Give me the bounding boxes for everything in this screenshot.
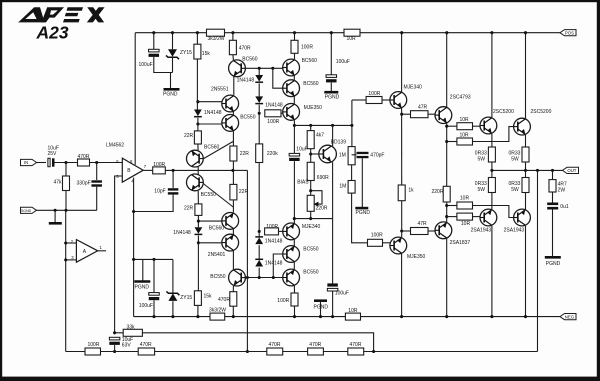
wire bias box bus bbox=[134, 258, 173, 260]
wire 100uF bot to rail bbox=[153, 300, 155, 316]
svg-text:BC560: BC560 bbox=[302, 58, 318, 64]
resistor 47k bbox=[54, 176, 70, 191]
svg-text:BC560: BC560 bbox=[242, 56, 258, 62]
wire 0R33up2 to OUT row bbox=[525, 162, 527, 170]
wire 10Rt2 to far base bbox=[473, 127, 514, 142]
wire 2N5401 down bbox=[232, 251, 234, 270]
svg-text:PGND: PGND bbox=[325, 94, 340, 100]
resistor 0R33 5W up2 bbox=[522, 147, 529, 162]
node input junction bbox=[64, 161, 67, 164]
diode 1N4148 mid-1 bbox=[237, 75, 264, 84]
svg-text:PGND: PGND bbox=[356, 210, 371, 216]
svg-text:BC550: BC550 bbox=[303, 246, 319, 252]
svg-text:2N5401: 2N5401 bbox=[208, 252, 226, 258]
wire BC560ul emitter down bbox=[233, 77, 235, 96]
svg-text:100uF: 100uF bbox=[139, 303, 153, 309]
wire MJE350low emitter bbox=[401, 254, 403, 317]
wire pgnd stem lower-left bbox=[142, 259, 144, 281]
capacitor 10uF bias bbox=[289, 146, 308, 161]
resistor 470R bottom bbox=[218, 292, 237, 307]
resistor 0R33 5W up1 bbox=[488, 147, 495, 162]
wire 1M-1M bbox=[351, 165, 353, 181]
svg-text:LM4562: LM4562 bbox=[106, 142, 124, 148]
wire opamp out bbox=[143, 169, 153, 171]
diode 1N4148 left bbox=[194, 110, 222, 117]
svg-text:100R: 100R bbox=[267, 119, 279, 125]
svg-text:5W: 5W bbox=[478, 156, 486, 162]
wire bias bus bottom bbox=[294, 218, 332, 220]
wire BC560lm to 2N5401 bbox=[232, 229, 234, 234]
svg-text:1N4148: 1N4148 bbox=[237, 78, 255, 84]
wire 10Rb2 to Q base bbox=[473, 216, 481, 218]
node POS rail x=401.7 bbox=[400, 31, 403, 34]
svg-text:330pF: 330pF bbox=[77, 180, 91, 186]
wire opamp pin8 power up bbox=[134, 33, 136, 165]
transistor BC550 right-2 bbox=[283, 246, 300, 263]
wire negative rail mid bbox=[225, 316, 346, 318]
resistor 10R bottom rail bbox=[345, 308, 360, 320]
svg-text:2SC4793: 2SC4793 bbox=[450, 95, 471, 101]
POS connector tag bbox=[560, 30, 576, 36]
wire pgnd lower-mid stem bbox=[320, 302, 322, 317]
resistor 22R upper-left bbox=[184, 131, 201, 144]
diode 1N4148 mid-2 bbox=[255, 96, 283, 108]
wire BD139 emitter down bbox=[332, 162, 334, 283]
svg-text:100R: 100R bbox=[301, 45, 313, 51]
node NEG rail x=332.6 bbox=[331, 315, 334, 318]
svg-text:BC550: BC550 bbox=[201, 192, 217, 198]
node 10R t2 tap bbox=[445, 140, 448, 143]
transistor MJE340 upper driver bbox=[390, 92, 407, 109]
transistor 2SA1943 no2 bbox=[514, 209, 531, 226]
svg-text:BC560: BC560 bbox=[204, 145, 220, 151]
node OUT row 2 bbox=[524, 169, 527, 172]
wire diode to base tap bbox=[197, 118, 199, 124]
zener ZY15 bottom bbox=[166, 291, 192, 301]
wire 2SC4793 emitter column bbox=[446, 123, 448, 222]
svg-text:15k: 15k bbox=[204, 293, 213, 299]
node rt2 branch bbox=[271, 67, 274, 70]
node bias bus right bbox=[350, 124, 353, 127]
wire positive rail right bbox=[360, 32, 560, 34]
svg-text:220R: 220R bbox=[432, 189, 444, 195]
wire 220k down bbox=[258, 163, 260, 237]
svg-text:2SC5200: 2SC5200 bbox=[493, 109, 514, 115]
wire ZY15 bot lead bbox=[172, 259, 174, 292]
resistor 0R33 5W dn2 bbox=[522, 178, 529, 193]
wire base 2N5551 bbox=[198, 101, 222, 103]
wire 470pF left lead bbox=[352, 154, 357, 156]
transistor 2SC4793 bbox=[435, 107, 452, 124]
svg-text:4k7: 4k7 bbox=[316, 133, 324, 139]
svg-text:100uF: 100uF bbox=[139, 62, 153, 68]
capacitor 0u1 zobel bbox=[547, 203, 569, 211]
wire base BC560 lowmid bbox=[198, 220, 221, 222]
wire ZY15 top lead bbox=[172, 33, 174, 50]
node OUT row 1 bbox=[490, 169, 493, 172]
node VAS drive bbox=[231, 169, 234, 172]
diode 1N4148 lowmid-2 bbox=[255, 259, 282, 266]
svg-text:PGND: PGND bbox=[163, 91, 178, 97]
wire 10pF return bbox=[134, 195, 174, 212]
node SGND ground stem bbox=[54, 209, 57, 212]
wire base bus upper bbox=[245, 67, 282, 69]
node POS rail x=172.5 bbox=[171, 31, 174, 34]
svg-text:PGND: PGND bbox=[546, 261, 561, 267]
wire 0u1 to PGND bbox=[552, 210, 554, 257]
wire negative rail right bbox=[361, 316, 561, 318]
wire 100R-coll leads bbox=[294, 33, 296, 41]
wire pin2 stub bbox=[66, 242, 77, 244]
node 100R mid top bbox=[258, 112, 261, 115]
wire Q5200-2 emitter bbox=[525, 135, 527, 147]
resistor 10R out-base t2 bbox=[457, 133, 473, 146]
node diode col top bbox=[258, 67, 261, 70]
resistor 15k bottom bbox=[194, 291, 212, 306]
transistor MJE350 lower driver bbox=[390, 237, 407, 254]
wire 2SC4793 collector bbox=[446, 33, 448, 108]
resistor 220R driver bbox=[432, 186, 451, 202]
node NEG rail x=233.3 bbox=[232, 315, 235, 318]
wire 22R to BC560 lowmid bbox=[232, 200, 234, 212]
svg-text:10R: 10R bbox=[460, 196, 470, 202]
wire OUT row bbox=[492, 169, 563, 171]
wire 33k row bbox=[115, 333, 374, 352]
wire 0R33dn2 leads bbox=[525, 170, 527, 177]
node fb vertical join bbox=[246, 276, 249, 279]
resistor 4R7 2W bbox=[549, 180, 556, 192]
svg-text:1k: 1k bbox=[408, 188, 414, 194]
svg-text:2SC5200: 2SC5200 bbox=[531, 109, 552, 115]
wire fb elbow bbox=[233, 169, 248, 171]
resistor 10R out-base b1 bbox=[457, 196, 473, 210]
resistor 690R bbox=[307, 162, 329, 181]
wire opamp A feed line bbox=[65, 210, 67, 351]
capacitor 330pF bbox=[77, 180, 102, 186]
wire 10Rt1 to Q base bbox=[473, 125, 481, 127]
svg-text:MJE350: MJE350 bbox=[407, 254, 426, 260]
node 10R b1 tap bbox=[445, 204, 448, 207]
svg-text:POS: POS bbox=[565, 30, 574, 35]
resistor 1k bbox=[398, 185, 414, 201]
transistor BC560 lower-left bbox=[187, 150, 204, 167]
wire 47k to SGND row bbox=[65, 191, 67, 211]
svg-text:1N4148: 1N4148 bbox=[265, 239, 283, 245]
svg-text:220R: 220R bbox=[316, 206, 328, 212]
node 47R top tap bbox=[400, 113, 403, 116]
transistor 2SA1943 no1 bbox=[480, 209, 497, 226]
wire BC560ll to BC550ll bbox=[197, 167, 199, 174]
wire 10Rt2 leads bbox=[447, 141, 457, 143]
node NEG rail x=525.5 bbox=[524, 315, 527, 318]
svg-text:33k: 33k bbox=[127, 324, 136, 330]
svg-text:10R: 10R bbox=[461, 221, 471, 227]
svg-text:22R: 22R bbox=[184, 205, 194, 211]
svg-text:NEG: NEG bbox=[565, 314, 575, 319]
wire 2SA1837 emitter bbox=[446, 239, 448, 317]
wire diode1-diode2 bbox=[258, 83, 260, 96]
wire Q1943-2 emitter bbox=[525, 226, 527, 317]
svg-text:3k3/2W: 3k3/2W bbox=[209, 308, 226, 314]
svg-text:A23: A23 bbox=[36, 23, 69, 43]
wire 0R33dn2 to Q1943-2 bbox=[525, 193, 527, 211]
wire rt2-MJE350 bbox=[293, 97, 295, 104]
zener ZY15 top bbox=[166, 49, 192, 59]
diode 1N4148 lower-left bbox=[173, 227, 202, 236]
node 10pF tap bbox=[172, 169, 175, 172]
wire diagonal cross-couple upper bbox=[204, 142, 233, 159]
wire diode-ll down bbox=[197, 236, 199, 291]
wire 100R-out to quad node bbox=[165, 169, 233, 171]
svg-text:47k: 47k bbox=[54, 179, 63, 185]
SGND connector tag bbox=[21, 207, 37, 213]
wire cap to node bbox=[54, 162, 78, 164]
transistor MJE350 top bbox=[283, 104, 300, 121]
transistor 2N5551 bbox=[222, 95, 239, 112]
capacitor 470pF bbox=[357, 152, 385, 159]
ground PGND top-right bbox=[324, 92, 339, 100]
wire BD139 base bbox=[311, 153, 321, 155]
transistor 2SA1837 bbox=[435, 222, 452, 239]
resistor 100R mid bottom bbox=[265, 224, 279, 235]
wire opamp pin5 left-down bbox=[115, 176, 123, 333]
wire 330pF drop bbox=[96, 163, 98, 181]
svg-text:22R: 22R bbox=[184, 133, 194, 139]
svg-text:10uF: 10uF bbox=[296, 146, 307, 152]
resistor 22R mid lower bbox=[230, 184, 249, 200]
wire Q5200-1 emitter bbox=[491, 134, 493, 147]
wire fb row right bbox=[101, 351, 267, 353]
svg-text:MJE340: MJE340 bbox=[302, 224, 321, 230]
svg-text:10R: 10R bbox=[460, 117, 470, 123]
svg-text:100uF: 100uF bbox=[335, 291, 349, 297]
resistor 10R out-base t1 bbox=[457, 117, 473, 130]
resistor 470R fb4 bbox=[348, 342, 364, 355]
node diode col bottom bbox=[258, 276, 261, 279]
wire 4k7 to 690R bbox=[310, 149, 312, 163]
OUT connector tag bbox=[563, 167, 579, 173]
capacitor 100uF bottom-left bbox=[139, 293, 159, 310]
node BD139 coll bbox=[331, 124, 334, 127]
ground PGND lower-mid bbox=[314, 301, 329, 311]
wire rt2 base branch bbox=[273, 68, 283, 88]
wire Q1943-1 emitter bbox=[491, 226, 493, 317]
capacitor 10pF bbox=[154, 188, 178, 194]
resistor 22R mid upper bbox=[230, 146, 249, 161]
svg-text:25V: 25V bbox=[48, 151, 58, 157]
wire BD139 collector up bbox=[332, 125, 334, 146]
wire opamp pin4 power down bbox=[133, 178, 135, 317]
svg-text:BC550: BC550 bbox=[303, 270, 319, 276]
wire fb row mid2 bbox=[283, 351, 308, 353]
wire diode to base bus lower bbox=[258, 268, 260, 278]
wire 10Rb1 leads bbox=[447, 205, 457, 207]
node pin2 junction bbox=[64, 241, 67, 244]
ground PGND bias bbox=[355, 208, 370, 216]
transistor BC560 lower-mid bbox=[222, 213, 239, 230]
node fb row mid bbox=[113, 350, 116, 353]
resistor 100R driver top bbox=[366, 91, 382, 104]
wire 100R to MJE350low base bbox=[383, 242, 390, 244]
op-amp U1B LM4562 bbox=[116, 158, 147, 183]
node POS rail x=331.3 bbox=[330, 31, 333, 34]
node POS rail x=232.9 bbox=[231, 31, 234, 34]
resistor 33k bbox=[123, 324, 142, 336]
svg-text:MJE340: MJE340 bbox=[404, 84, 423, 90]
transistor BC550 lower-left bbox=[187, 174, 204, 191]
transistor BC560 right-1 bbox=[283, 59, 300, 76]
wire 15k-bot to rail bbox=[197, 305, 199, 316]
wire 10pF drop bbox=[172, 170, 174, 188]
wire 1M column bbox=[351, 100, 353, 147]
resistor 100R opamp out bbox=[153, 162, 166, 174]
wire fb row right end bbox=[364, 351, 538, 353]
resistor 470R top bbox=[229, 40, 251, 54]
svg-text:5W: 5W bbox=[511, 156, 519, 162]
transistor 2SC5200 no1 bbox=[480, 117, 497, 134]
wire 470pF right to pgnd bbox=[361, 158, 363, 207]
svg-text:OUT: OUT bbox=[567, 168, 576, 173]
node 47k bottom bbox=[64, 209, 67, 212]
node bias box bus join bbox=[132, 258, 135, 261]
node 10pF return on pin4 line bbox=[132, 210, 135, 213]
wire 0R33dn1 leads bbox=[491, 170, 493, 177]
svg-text:1N4148: 1N4148 bbox=[265, 103, 283, 109]
svg-text:10R: 10R bbox=[460, 133, 470, 139]
svg-text:100R: 100R bbox=[368, 91, 380, 97]
resistor 47R bottom bbox=[411, 221, 429, 235]
wire 100uF bottom bbox=[154, 57, 173, 73]
wire 0R33up1 to OUT row bbox=[491, 162, 493, 170]
wire fb row mid3 bbox=[323, 351, 347, 353]
wire 470R-bot to rail bbox=[232, 306, 234, 316]
node NEG rail x=197.9 bbox=[196, 315, 199, 318]
node BD139 base tap bbox=[309, 152, 312, 155]
wire 47R to 2SC4793 base bbox=[428, 113, 435, 115]
node pin3 junction bbox=[64, 258, 67, 261]
svg-text:63V: 63V bbox=[122, 343, 132, 349]
wire diode2 to 100R node bbox=[258, 105, 260, 144]
node 10R t1 tap bbox=[445, 125, 448, 128]
wire diode1 top lead bbox=[258, 68, 260, 75]
wire rt1-rt2 bbox=[293, 76, 295, 80]
node POS rail x=491.9 bbox=[490, 31, 493, 34]
svg-text:BC550: BC550 bbox=[210, 274, 226, 280]
svg-text:5W: 5W bbox=[478, 187, 486, 193]
node NEG rail x=172.9 bbox=[171, 315, 174, 318]
svg-text:5W: 5W bbox=[511, 187, 519, 193]
svg-text:100R: 100R bbox=[277, 298, 289, 304]
capacitor 10uF 25V input bbox=[48, 158, 55, 166]
wire 100R to MJE340 base bbox=[279, 230, 285, 232]
node POS rail x=153.8 bbox=[152, 31, 155, 34]
node 47R bottom tap bbox=[400, 229, 403, 232]
wire 100R driver left lead bbox=[352, 99, 366, 101]
NEG connector tag bbox=[560, 314, 576, 320]
svg-text:220k: 220k bbox=[267, 151, 278, 157]
transistor BC560 right-2 bbox=[283, 80, 300, 97]
svg-text:IN: IN bbox=[24, 160, 28, 165]
wire 15k top lead bbox=[196, 33, 198, 45]
wire 22R-ll to dot bbox=[197, 215, 199, 227]
resistor 100R mid top bbox=[265, 110, 281, 125]
node NEG rail x=491.9 bbox=[490, 315, 493, 318]
svg-text:BC550: BC550 bbox=[240, 114, 256, 120]
svg-text:470R: 470R bbox=[140, 342, 152, 348]
resistor 470R fb2 bbox=[267, 342, 283, 355]
svg-text:470R: 470R bbox=[239, 45, 251, 51]
wire 4R7 drop bbox=[552, 170, 554, 179]
wire 22R mid to node bbox=[232, 161, 234, 184]
svg-text:470R: 470R bbox=[309, 342, 321, 348]
ground PGND top-left bbox=[163, 89, 180, 97]
wire base BC550 bbox=[198, 123, 222, 125]
node NEG rail x=154 bbox=[152, 315, 155, 318]
svg-text:10R: 10R bbox=[347, 36, 357, 42]
transistor BC550 bottom bbox=[229, 269, 246, 286]
wire 100R-cb to rail bbox=[294, 306, 296, 317]
wire BC550 emitter to 22R mid bbox=[232, 131, 234, 146]
node BC550 base tap bbox=[196, 122, 199, 125]
capacitor 100uF top-left bbox=[139, 49, 160, 68]
wire 470R to BC560 bbox=[232, 55, 235, 61]
transistor 2SC5200 no2 bbox=[514, 118, 531, 135]
svg-text:2SA1837: 2SA1837 bbox=[450, 240, 471, 246]
wire pgnd stem top-left bbox=[170, 73, 172, 89]
resistor 1M lower bbox=[339, 181, 355, 194]
svg-text:1N4148: 1N4148 bbox=[204, 110, 222, 116]
resistor 1M upper bbox=[339, 147, 355, 165]
node 2N5401 base tap bbox=[197, 241, 200, 244]
wire 100uF-tr to pgnd bbox=[330, 83, 332, 92]
wire fb cap to row bbox=[114, 345, 116, 351]
wire rt2b-rt3b bbox=[293, 262, 295, 269]
node POS rail x=294.5 bbox=[293, 31, 296, 34]
svg-text:22R: 22R bbox=[240, 151, 250, 157]
node bias bus bottom left bbox=[293, 217, 296, 220]
node 4k7 top bbox=[309, 124, 312, 127]
node OUT row 4 bbox=[551, 169, 554, 172]
resistor 100R collector top bbox=[291, 40, 313, 53]
wire base bus lower bbox=[245, 277, 282, 279]
wire 1M to lower 100R row bbox=[352, 193, 368, 243]
svg-text:470R: 470R bbox=[350, 342, 362, 348]
resistor 47R top bbox=[411, 104, 429, 117]
wire to 22R upper-left bbox=[197, 124, 199, 131]
svg-text:ZY15: ZY15 bbox=[180, 295, 192, 301]
svg-text:470R: 470R bbox=[269, 342, 281, 348]
resistor 100R driver bottom bbox=[368, 233, 384, 247]
resistor 4k7 bbox=[307, 131, 324, 149]
svg-text:ZY15: ZY15 bbox=[180, 50, 192, 56]
wire 690R to pot bbox=[310, 181, 312, 196]
svg-text:10pF: 10pF bbox=[154, 189, 165, 195]
resistor 22R lower-left bbox=[184, 204, 202, 216]
node after 470R bbox=[95, 161, 98, 164]
wire rt3 to 100R bottom bbox=[293, 286, 295, 293]
wire 100R to MJE350 base bbox=[281, 112, 284, 114]
wire 0R33dn1 to Q1943-1 bbox=[491, 193, 493, 210]
svg-text:2W: 2W bbox=[558, 187, 566, 193]
transistor BC550 right-3 bbox=[283, 269, 300, 286]
node NEG rail x=446.7 bbox=[445, 315, 448, 318]
node 10R b2 tap bbox=[445, 215, 448, 218]
node fb row join bbox=[246, 350, 249, 353]
node POS rail x=525.5 bbox=[524, 31, 527, 34]
node 33k row left bbox=[113, 331, 116, 334]
node 2N5551 base tap bbox=[196, 100, 199, 103]
wire opamp A output stub bbox=[98, 250, 106, 252]
